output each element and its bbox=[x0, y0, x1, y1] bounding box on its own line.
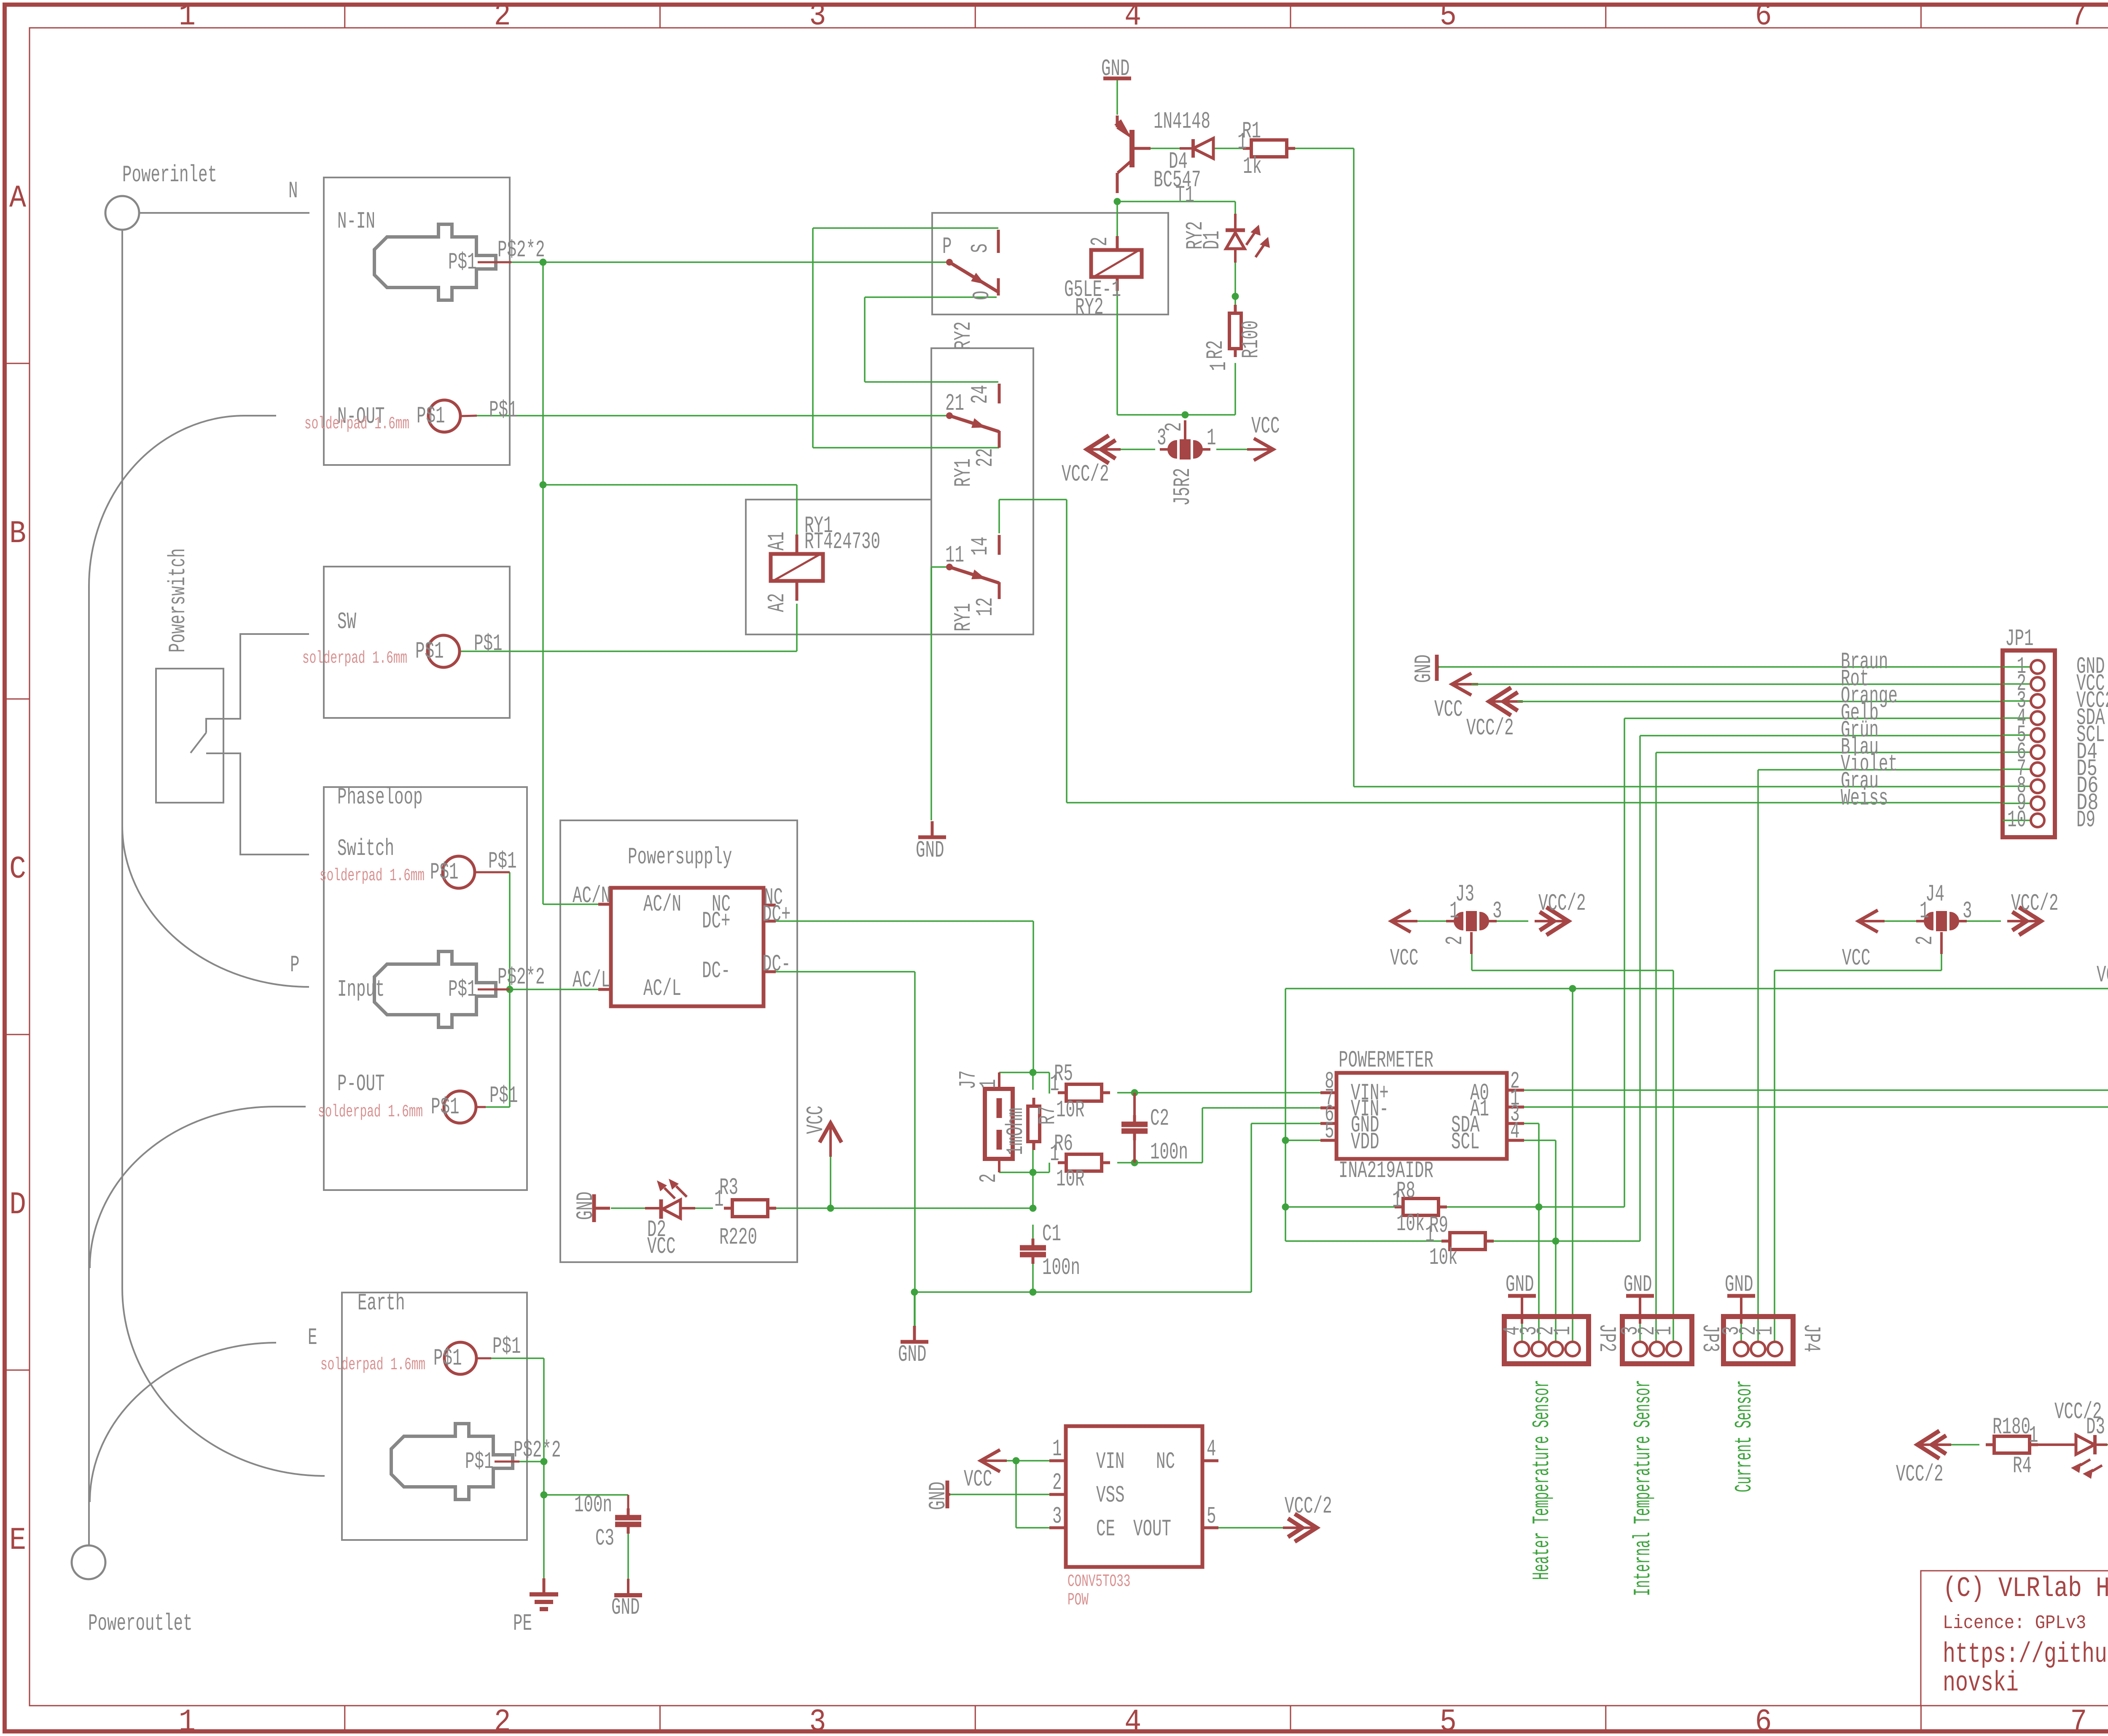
supply arrow VCC/2 (J5R2) bbox=[1087, 435, 1109, 463]
solderpad SW bbox=[428, 635, 460, 667]
capacitor C1 100n bbox=[1032, 1239, 1035, 1248]
junction at 2450,2781 bbox=[1030, 1169, 1037, 1176]
svg-text:6: 6 bbox=[1755, 1704, 1772, 1736]
net E plug stub bbox=[519, 1461, 544, 1462]
net RY1-14 right bbox=[999, 499, 1067, 500]
net to R5.1 bbox=[1049, 1072, 1050, 1094]
supply arrow VCC/2 (VOUT) bbox=[1295, 1514, 1317, 1542]
net SDA down bbox=[1538, 1123, 1540, 1207]
net N to AC/N pin bbox=[543, 903, 598, 905]
resistor R8 10k bbox=[1395, 1206, 1403, 1209]
svg-text:P$1: P$1 bbox=[489, 1082, 518, 1109]
transistor T1 BC547 bbox=[1116, 116, 1119, 127]
svg-text:VCC: VCC bbox=[1251, 413, 1280, 440]
net CE stub bbox=[1016, 1527, 1049, 1529]
net SCL vertical bbox=[1639, 736, 1641, 1241]
wire stub N-OUT arc bbox=[245, 415, 276, 417]
jumper J3 bbox=[1454, 912, 1463, 930]
INA219 pin 1 bbox=[1507, 1106, 1524, 1109]
svg-text:2: 2 bbox=[494, 0, 511, 34]
ground symbol RY1-11 GND bbox=[931, 821, 934, 837]
svg-text:2: 2 bbox=[1161, 422, 1188, 432]
svg-text:R4: R4 bbox=[2013, 1452, 2032, 1479]
net VCC to J3.1 bbox=[1417, 920, 1446, 922]
net J4.3 to VCC/2 bbox=[1967, 920, 2001, 922]
svg-text:P-OUT: P-OUT bbox=[337, 1070, 385, 1097]
ground symbol JP4 GND bbox=[1727, 1294, 1755, 1298]
svg-text:VCC: VCC bbox=[802, 1106, 829, 1134]
net SCL stub bbox=[1524, 1139, 1556, 1141]
svg-text:GND: GND bbox=[1506, 1271, 1534, 1298]
svg-text:1N4148: 1N4148 bbox=[1153, 108, 1210, 135]
RY1 contact 22 stub bbox=[998, 431, 1001, 448]
svg-text:1: 1 bbox=[1205, 362, 1232, 371]
svg-text:GND: GND bbox=[572, 1192, 599, 1220]
net P to AC/L bbox=[510, 989, 598, 990]
JP4 pin circle bbox=[1768, 1342, 1782, 1356]
resistor R9 10k bbox=[1441, 1240, 1450, 1243]
svg-text:A1: A1 bbox=[764, 532, 790, 551]
JP1 pin 4 bbox=[2003, 718, 2030, 719]
svg-text:3: 3 bbox=[809, 0, 826, 34]
svg-text:D9: D9 bbox=[2076, 806, 2095, 833]
jumper J4 bbox=[1924, 912, 1933, 930]
junction at 2450,3065 bbox=[1030, 1289, 1037, 1296]
svg-text:1k: 1k bbox=[1243, 153, 1262, 180]
net GND to JP1 pin1 bbox=[1439, 666, 2003, 668]
net J4.2 stub bbox=[1941, 954, 1942, 970]
svg-text:Phaseloop: Phaseloop bbox=[337, 784, 423, 811]
net D1 to R2 bbox=[1234, 263, 1236, 296]
svg-text:Heater Temperature Sensor: Heater Temperature Sensor bbox=[1528, 1380, 1555, 1580]
net SDA stub bbox=[1524, 1123, 1539, 1124]
net shunt top to J7.1 bbox=[999, 1072, 1033, 1073]
relay coil RY2 G5LE-1 bbox=[1091, 250, 1142, 277]
ground symbol PSU GND (rotated) bbox=[594, 1207, 610, 1210]
svg-text:1: 1 bbox=[1050, 1140, 1059, 1167]
resistor R6 10R bbox=[1058, 1161, 1066, 1164]
svg-text:Weiss: Weiss bbox=[1841, 785, 1888, 812]
net VIN+ line bbox=[1117, 1092, 1320, 1094]
svg-text:P$1: P$1 bbox=[431, 1094, 460, 1121]
net JP4 GND stub bbox=[1740, 1324, 1742, 1342]
svg-text:1: 1 bbox=[1207, 425, 1216, 451]
net RY2-O left bbox=[865, 296, 997, 298]
svg-text:AC/L: AC/L bbox=[573, 967, 610, 994]
net to C1 top bbox=[1032, 1225, 1034, 1240]
net RY1-11 to GND bbox=[930, 567, 932, 820]
svg-text:1: 1 bbox=[1549, 1326, 1576, 1336]
relay coil RY1 RT424730 bbox=[771, 554, 823, 581]
INA219 pin 6 bbox=[1320, 1122, 1336, 1125]
svg-text:1: 1 bbox=[1237, 129, 1247, 156]
powerinlet circle bbox=[105, 196, 139, 230]
header JP2 bbox=[1504, 1317, 1589, 1364]
resistor R3 R220 bbox=[724, 1207, 732, 1210]
svg-text:R7: R7 bbox=[1034, 1106, 1061, 1125]
svg-text:R100: R100 bbox=[1237, 320, 1264, 358]
svg-text:P$2*2: P$2*2 bbox=[514, 1437, 561, 1464]
svg-text:RY2: RY2 bbox=[1075, 294, 1104, 321]
svg-text:novski: novski bbox=[1943, 1667, 2019, 1699]
svg-text:P$2*2: P$2*2 bbox=[497, 964, 545, 991]
supply arrow VCC (J4) bbox=[1858, 910, 1878, 932]
net GND to T1 emitter bbox=[1116, 80, 1118, 115]
diode D4 1N4148 bbox=[1180, 147, 1193, 150]
svg-text:14: 14 bbox=[967, 537, 994, 556]
net R2 bottom bbox=[1234, 363, 1236, 415]
net VCC to J4.1 bbox=[1885, 920, 1916, 922]
Input plug symbol bbox=[374, 951, 496, 1027]
net VIN to CE vertical bbox=[1015, 1461, 1017, 1528]
net VIN- left bbox=[1117, 1162, 1202, 1164]
supply arrow VCC (J5R2) bbox=[1254, 438, 1273, 460]
powerswitch wiring bottom bbox=[206, 753, 309, 855]
PSU pin DC+ bbox=[764, 920, 776, 923]
net JP4 pin1 vertical bbox=[1774, 970, 1775, 1342]
net N drop to A1 bbox=[796, 485, 798, 535]
net VCC arrow stub bbox=[830, 1150, 831, 1208]
svg-text:(C) VLRlab Hörler: (C) VLRlab Hörler bbox=[1943, 1573, 2108, 1605]
svg-text:P$1: P$1 bbox=[474, 630, 503, 657]
net to R6.1 bbox=[1049, 1163, 1050, 1172]
svg-text:Powerswitch: Powerswitch bbox=[164, 548, 191, 653]
net D6 to JP1 pin8 bbox=[1354, 786, 2003, 787]
JP1 pin 5 bbox=[2003, 734, 2030, 736]
JP2 pin circle bbox=[1515, 1342, 1529, 1356]
net GND to VSS bbox=[950, 1494, 1049, 1495]
net RY1-11 stub bbox=[931, 566, 949, 568]
svg-text:VCC: VCC bbox=[2097, 962, 2108, 989]
pad stub SW bbox=[459, 650, 461, 653]
svg-text:Current Sensor: Current Sensor bbox=[1731, 1380, 1758, 1492]
junction at 1290,3467 bbox=[540, 1458, 548, 1465]
net VIN- to pin7 bbox=[1202, 1107, 1320, 1109]
net VCC/2 to J5R2.3 bbox=[1114, 449, 1155, 450]
net RY2-S left bbox=[813, 227, 998, 229]
JP2 pin circle bbox=[1565, 1342, 1580, 1356]
svg-text:2: 2 bbox=[1441, 936, 1468, 946]
net to RY1 contact 24 bbox=[865, 381, 998, 383]
net D8 vertical bbox=[1066, 500, 1067, 803]
svg-text:5: 5 bbox=[1325, 1118, 1334, 1145]
svg-text:P$1: P$1 bbox=[465, 1448, 494, 1475]
RY2 contact S stub bbox=[997, 230, 1000, 253]
svg-text:solderpad 1.6mm: solderpad 1.6mm bbox=[320, 1355, 425, 1375]
junction at 2650,478 bbox=[1114, 198, 1121, 205]
solderpad N-OUT bbox=[428, 400, 460, 432]
svg-text:2: 2 bbox=[1912, 936, 1939, 946]
svg-text:P$2*2: P$2*2 bbox=[497, 236, 545, 263]
net N branch to RY1 coil A1 bbox=[543, 484, 797, 486]
powersupply PSU block bbox=[611, 888, 764, 1006]
RY1 contact arm 21-22 bbox=[946, 412, 953, 419]
svg-text:3: 3 bbox=[809, 1704, 826, 1736]
net A1 line bbox=[1524, 1106, 2108, 1108]
net E pad stub bbox=[491, 1357, 544, 1359]
svg-text:P$1: P$1 bbox=[417, 403, 445, 430]
net VDD stub bbox=[1285, 1139, 1320, 1141]
svg-text:VSS: VSS bbox=[1096, 1482, 1125, 1509]
solderpad Earth P$1 bbox=[444, 1342, 476, 1374]
net VOUT to VCC/2 bbox=[1218, 1527, 1288, 1529]
junction at 1209,2347 bbox=[506, 986, 514, 993]
net J3.3 to VCC/2 bbox=[1497, 920, 1528, 922]
svg-text:7: 7 bbox=[2070, 0, 2087, 34]
arc wire to Earth plug bbox=[122, 1288, 325, 1476]
svg-text:Switch: Switch bbox=[337, 835, 394, 862]
junction at 2450,2544 bbox=[1030, 1069, 1037, 1076]
supply arrow VCC/2 (JP1 pin3) bbox=[1489, 688, 1511, 715]
svg-text:VCC: VCC bbox=[647, 1233, 676, 1260]
header JP1 bbox=[2003, 650, 2055, 837]
svg-text:2: 2 bbox=[1086, 237, 1113, 247]
net JP3 pin1 vertical bbox=[1672, 970, 1674, 1342]
svg-text:1: 1 bbox=[1052, 1435, 1062, 1462]
junction at 3049,2705 bbox=[1282, 1137, 1289, 1144]
svg-text:P: P bbox=[942, 233, 952, 260]
svg-text:RY1: RY1 bbox=[950, 459, 977, 487]
svg-text:C2: C2 bbox=[1150, 1105, 1169, 1132]
svg-text:21: 21 bbox=[945, 390, 964, 417]
svg-text:100n: 100n bbox=[1042, 1254, 1080, 1281]
svg-text:DC-: DC- bbox=[762, 951, 791, 978]
junction at 3730,2345 bbox=[1569, 985, 1576, 992]
junction at 2930,703 bbox=[1232, 293, 1239, 300]
svg-text:VIN: VIN bbox=[1096, 1448, 1125, 1475]
svg-text:1: 1 bbox=[714, 1186, 724, 1213]
svg-text:VCC: VCC bbox=[1390, 945, 1419, 972]
relay RY1 coil box bbox=[746, 500, 1033, 634]
junction at 2450,2866 bbox=[1030, 1205, 1037, 1212]
svg-text:P$1: P$1 bbox=[448, 976, 477, 1003]
CONV pin 4 NC bbox=[1202, 1459, 1218, 1462]
net shunt top right bbox=[1033, 1072, 1049, 1073]
JP1 pin 7 bbox=[2003, 769, 2030, 770]
LED D1 bbox=[1234, 214, 1237, 229]
poweroutlet circle bbox=[72, 1545, 105, 1579]
svg-text:D3: D3 bbox=[2086, 1414, 2105, 1440]
net D4 to JP1 pin6 bbox=[1656, 752, 2003, 753]
svg-text:GND: GND bbox=[611, 1594, 640, 1621]
net VCC/2 to JP1 pin3 bbox=[1517, 701, 2003, 702]
earth symbol PE bbox=[543, 1578, 546, 1594]
svg-text:Powersupply: Powersupply bbox=[628, 844, 732, 871]
JP1 pin 10 bbox=[2003, 820, 2030, 821]
CONV pin 2 VSS bbox=[1049, 1493, 1066, 1496]
svg-text:24: 24 bbox=[967, 385, 994, 404]
module box Earth bbox=[342, 1293, 527, 1540]
svg-text:E: E bbox=[9, 1523, 26, 1559]
svg-text:CE: CE bbox=[1096, 1516, 1115, 1543]
svg-text:3: 3 bbox=[1492, 898, 1502, 924]
junction at 1288,622 bbox=[540, 259, 547, 266]
net GND up bbox=[1250, 1123, 1252, 1292]
svg-text:1: 1 bbox=[1752, 1326, 1779, 1336]
net SDA to JP2 pin3 bbox=[1538, 1207, 1540, 1342]
resistor R5 10R bbox=[1058, 1091, 1066, 1094]
INA219 pin 7 bbox=[1320, 1107, 1336, 1110]
svg-text:1: 1 bbox=[2029, 1422, 2038, 1449]
supply arrow VCC (JP1 pin2) bbox=[1452, 673, 1471, 695]
net D4 to JP3 pin2 bbox=[1655, 752, 1657, 1342]
svg-text:AC/N: AC/N bbox=[573, 882, 610, 909]
svg-text:P$1: P$1 bbox=[415, 638, 444, 665]
pad stub Switch bbox=[475, 871, 510, 873]
svg-text:N-IN: N-IN bbox=[337, 208, 375, 235]
PSU pin NC bbox=[764, 904, 776, 907]
svg-text:RY2: RY2 bbox=[950, 322, 977, 350]
net to GND symbol bbox=[914, 1292, 915, 1326]
pin stub Input plug bbox=[478, 989, 510, 991]
svg-text:Licence: GPLv3: Licence: GPLv3 bbox=[1943, 1612, 2086, 1634]
relay RY2 contact box bbox=[932, 213, 1168, 314]
pin stub N-IN plug bbox=[478, 261, 511, 263]
svg-text:4: 4 bbox=[1510, 1118, 1520, 1145]
svg-text:4: 4 bbox=[1124, 1704, 1141, 1736]
net T1 base to D4 bbox=[1151, 148, 1180, 149]
junction at 1970,2866 bbox=[827, 1205, 834, 1212]
pad stub N-OUT bbox=[460, 416, 477, 416]
net JP2 GND stub bbox=[1521, 1324, 1523, 1342]
JP1 pin 3 bbox=[2003, 700, 2030, 702]
svg-text:VCC/2: VCC/2 bbox=[1896, 1461, 1944, 1488]
ground symbol top GND bbox=[1103, 77, 1131, 81]
powerswitch wiring top bbox=[206, 634, 309, 733]
svg-text:RT424730: RT424730 bbox=[804, 528, 880, 555]
svg-text:B: B bbox=[9, 516, 26, 552]
svg-text:2: 2 bbox=[494, 1704, 511, 1736]
module box Powersupply bbox=[560, 820, 797, 1262]
IC POWERMETER INA219AIDR bbox=[1336, 1073, 1507, 1159]
svg-text:4: 4 bbox=[1124, 0, 1141, 34]
net RY2-S vertical bbox=[812, 228, 814, 448]
powerswitch box bbox=[156, 669, 223, 803]
svg-text:VOUT: VOUT bbox=[1133, 1516, 1171, 1543]
junction at 2691,2592 bbox=[1131, 1089, 1138, 1096]
svg-text:solderpad 1.6mm: solderpad 1.6mm bbox=[318, 1102, 423, 1122]
net DC+ down to shunt bbox=[1032, 921, 1034, 1072]
solderpad Switch bbox=[443, 856, 475, 888]
powerswitch blade bbox=[191, 733, 206, 753]
resistor R7 bbox=[1032, 1098, 1035, 1106]
svg-text:N: N bbox=[288, 177, 298, 204]
frame column ticks bbox=[344, 5, 345, 28]
svg-text:1: 1 bbox=[179, 1704, 196, 1736]
JP1 pin 2 bbox=[2003, 683, 2030, 685]
svg-text:A2: A2 bbox=[764, 593, 790, 612]
CONV pin 5 VOUT bbox=[1202, 1526, 1218, 1529]
resistor R2 R100 bbox=[1234, 305, 1237, 313]
svg-text:VCC/2: VCC/2 bbox=[2011, 890, 2059, 917]
svg-text:solderpad 1.6mm: solderpad 1.6mm bbox=[320, 866, 425, 886]
svg-text:1: 1 bbox=[1651, 1326, 1678, 1336]
net D4 to R1 bbox=[1214, 148, 1244, 149]
header JP4 bbox=[1724, 1317, 1793, 1364]
capacitor C2 100n bbox=[1133, 1115, 1136, 1124]
net R4 to D3 bbox=[2049, 1444, 2066, 1446]
svg-text:C1: C1 bbox=[1042, 1220, 1061, 1247]
net J4.2 to JP4 pin1 bbox=[1775, 970, 1941, 971]
net D3 to GND bbox=[2107, 1444, 2108, 1446]
capacitor C3 100n bbox=[627, 1508, 630, 1518]
svg-text:2: 2 bbox=[1052, 1469, 1062, 1496]
svg-text:D: D bbox=[9, 1187, 26, 1223]
svg-text:3: 3 bbox=[1963, 898, 1972, 924]
ground symbol CONV GND (rotated) bbox=[946, 1481, 949, 1508]
svg-text:1mOhm: 1mOhm bbox=[1002, 1108, 1029, 1156]
net VCC horizontal bbox=[772, 1207, 1033, 1209]
svg-text:SCL: SCL bbox=[1451, 1129, 1480, 1156]
net DC- down bbox=[914, 972, 916, 1326]
svg-text:11: 11 bbox=[945, 542, 964, 569]
net to R9.1 bbox=[1285, 1240, 1442, 1242]
supply arrow VCC/2 (J3) bbox=[1546, 907, 1568, 935]
PSU pin DC- bbox=[764, 970, 776, 973]
svg-text:D4: D4 bbox=[1169, 148, 1188, 175]
net P-OUT stub bbox=[486, 1106, 510, 1108]
solderpad P-OUT bbox=[444, 1091, 476, 1123]
net to J7.2 bbox=[999, 1172, 1033, 1173]
svg-text:10k: 10k bbox=[1429, 1244, 1458, 1271]
svg-text:T1: T1 bbox=[1175, 182, 1194, 209]
svg-text:VCC/2: VCC/2 bbox=[1062, 461, 1109, 488]
net VCC2 down to R8 R9 bbox=[1285, 1140, 1286, 1241]
svg-text:GND: GND bbox=[916, 837, 944, 864]
svg-text:solderpad 1.6mm: solderpad 1.6mm bbox=[302, 649, 407, 668]
junction at 2811,984 bbox=[1182, 411, 1189, 419]
svg-text:10k: 10k bbox=[1396, 1210, 1425, 1237]
net DC- right bbox=[776, 971, 915, 973]
net P vertical bbox=[509, 872, 511, 1107]
net J3.2 to JP3 pin1 bbox=[1472, 970, 1673, 971]
JP3 pin circle bbox=[1667, 1342, 1681, 1356]
resistor R4 R180 bbox=[1986, 1443, 1994, 1446]
svg-text:Powerinlet: Powerinlet bbox=[122, 161, 217, 188]
header JP3 bbox=[1622, 1317, 1692, 1364]
svg-text:INA219AIDR: INA219AIDR bbox=[1339, 1157, 1433, 1184]
module box SW bbox=[324, 567, 510, 718]
svg-text:7: 7 bbox=[2070, 1704, 2087, 1736]
JP4 pin circle bbox=[1734, 1342, 1748, 1356]
svg-text:1: 1 bbox=[1392, 1187, 1402, 1214]
net E to C3 bbox=[544, 1494, 628, 1496]
C3 to GND bbox=[627, 1534, 629, 1579]
net N-OUT to RY1 contact 21 bbox=[477, 415, 947, 417]
net GND horizontal bbox=[915, 1291, 1251, 1293]
net SCL down bbox=[1555, 1140, 1557, 1241]
CONV pin 1 VIN bbox=[1049, 1459, 1066, 1462]
svg-text:VCC/2: VCC/2 bbox=[1538, 890, 1586, 917]
title block bbox=[1921, 1571, 2108, 1706]
RY1 contact 24 stub bbox=[998, 384, 1001, 403]
svg-text:1: 1 bbox=[975, 1079, 1002, 1089]
svg-text:GND: GND bbox=[1624, 1271, 1652, 1298]
svg-text:A: A bbox=[9, 180, 26, 216]
resistor R1 1k bbox=[1243, 147, 1251, 150]
frame row ticks bbox=[5, 363, 30, 364]
pad stub P-OUT bbox=[476, 1106, 486, 1108]
svg-text:VCC: VCC bbox=[1434, 696, 1463, 723]
net R9 to SCL bbox=[1493, 1240, 1640, 1242]
svg-text:100n: 100n bbox=[1150, 1139, 1188, 1166]
svg-text:DC+: DC+ bbox=[762, 901, 791, 928]
svg-text:VDD: VDD bbox=[1351, 1129, 1379, 1156]
svg-text:POW: POW bbox=[1067, 1591, 1089, 1610]
svg-text:JP2: JP2 bbox=[1593, 1324, 1620, 1352]
supply arrow VCC (CONV) bbox=[981, 1450, 1000, 1472]
net to RY1 contact 22 bbox=[813, 447, 999, 449]
